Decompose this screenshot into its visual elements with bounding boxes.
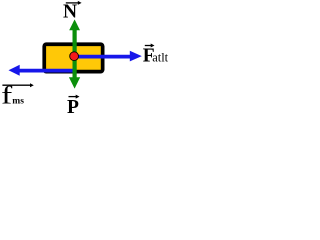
svg-text:f: f [1,83,12,110]
svg-text:P: P [67,97,79,118]
svg-text:N: N [63,2,77,23]
svg-text:atlt: atlt [152,51,168,65]
svg-text:ms: ms [12,97,24,107]
